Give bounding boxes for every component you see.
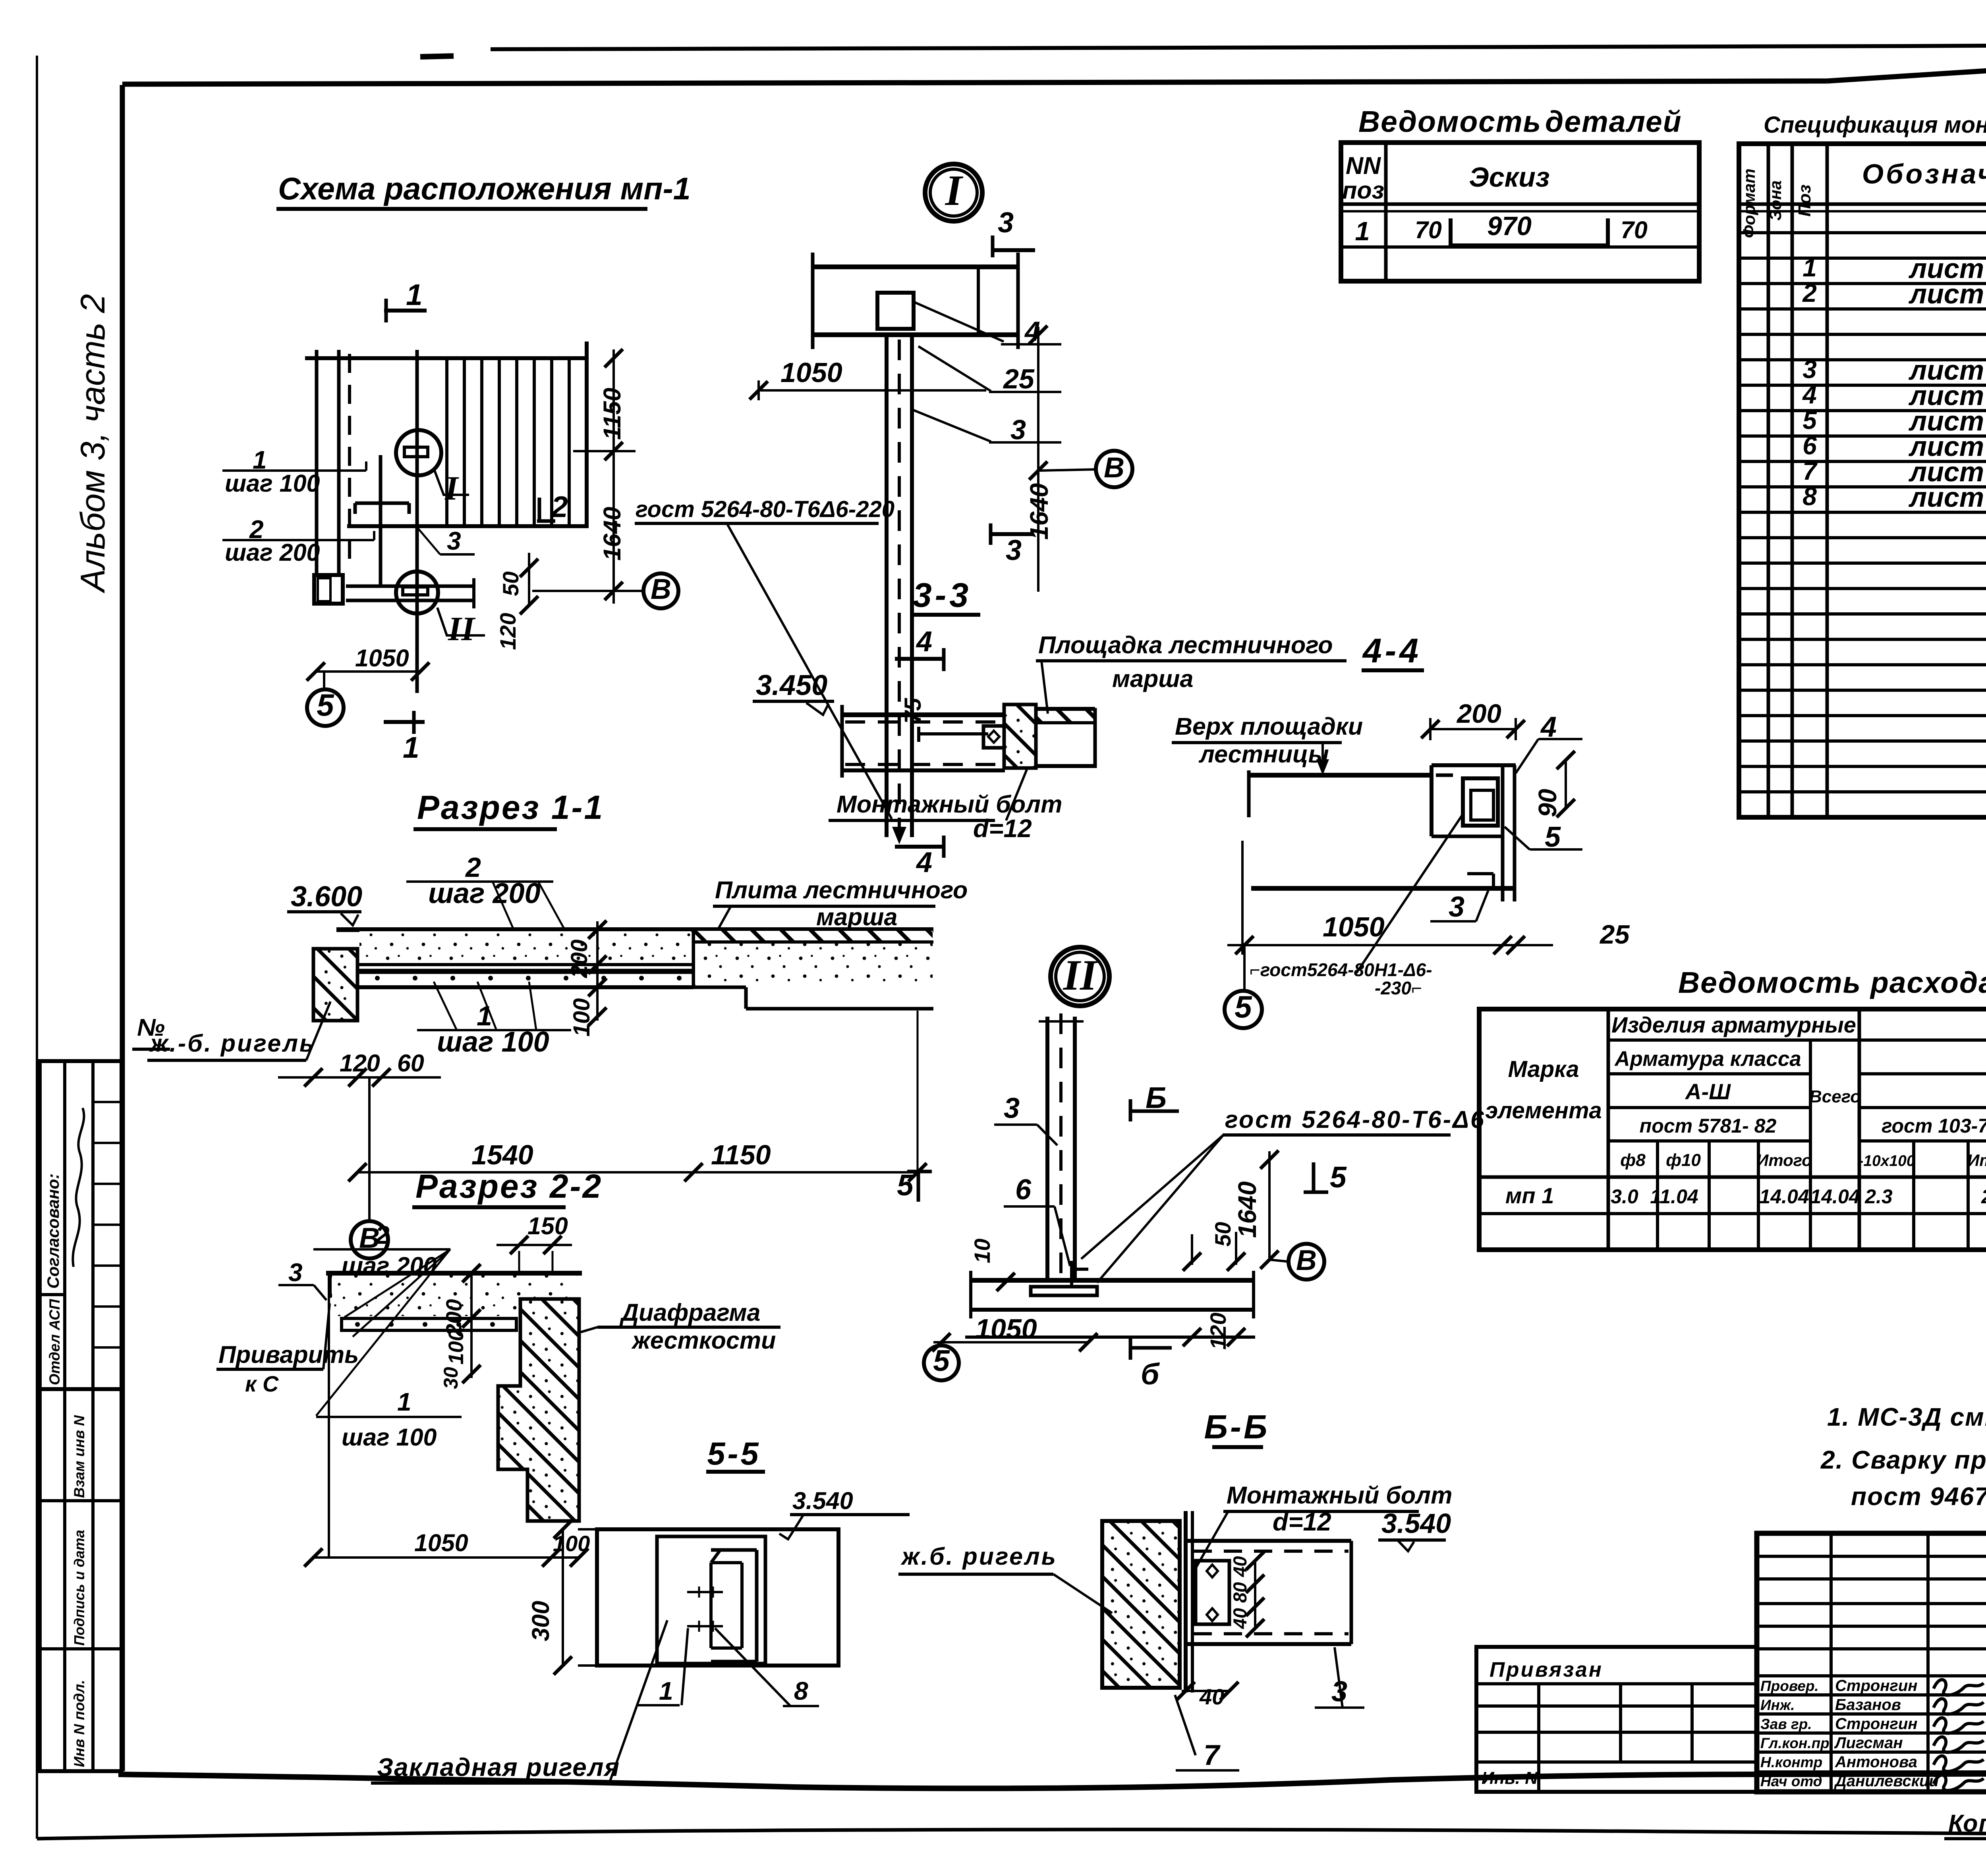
svg-text:пост 5781- 82: пост 5781- 82 xyxy=(1640,1115,1777,1137)
svg-text:2.3: 2.3 xyxy=(1864,1185,1893,1208)
svg-text:5: 5 xyxy=(933,1344,950,1377)
svg-text:70: 70 xyxy=(1621,216,1648,243)
svg-text:25: 25 xyxy=(1599,920,1630,950)
svg-text:жесткости: жесткости xyxy=(631,1327,776,1354)
svg-text:Данилевский: Данилевский xyxy=(1834,1772,1939,1790)
svg-text:Взам инв N: Взам инв N xyxy=(71,1415,87,1498)
svg-text:30: 30 xyxy=(440,1367,462,1389)
svg-text:3.540: 3.540 xyxy=(1381,1508,1451,1539)
svg-text:Приварить: Приварить xyxy=(218,1341,359,1368)
svg-text:Н.контр: Н.контр xyxy=(1760,1754,1822,1770)
svg-text:Эскиз: Эскиз xyxy=(1469,162,1549,193)
svg-text:4: 4 xyxy=(916,847,932,878)
svg-text:1640: 1640 xyxy=(1025,483,1053,540)
svg-text:1: 1 xyxy=(1802,253,1817,282)
svg-text:300: 300 xyxy=(527,1601,554,1641)
svg-text:3.450: 3.450 xyxy=(756,670,827,701)
svg-text:d=12: d=12 xyxy=(1273,1507,1331,1536)
svg-text:В: В xyxy=(1296,1245,1317,1276)
svg-text:50: 50 xyxy=(498,571,523,596)
svg-text:Формат: Формат xyxy=(1740,168,1758,238)
svg-text:лист 61: лист 61 xyxy=(1909,278,1986,309)
svg-text:NN: NN xyxy=(1346,152,1381,179)
svg-text:4: 4 xyxy=(1802,380,1817,409)
svg-text:1050: 1050 xyxy=(780,357,842,388)
svg-text:3: 3 xyxy=(1006,535,1022,566)
svg-text:Нач отд: Нач отд xyxy=(1760,1773,1822,1789)
svg-text:Площадка лестничного: Площадка лестничного xyxy=(1038,631,1333,658)
svg-text:ж.-б. ригель: ж.-б. ригель xyxy=(149,1030,315,1057)
svg-text:Антонова: Антонова xyxy=(1835,1753,1917,1771)
svg-text:1640: 1640 xyxy=(1233,1181,1262,1238)
svg-text:В: В xyxy=(1104,452,1124,484)
svg-text:8: 8 xyxy=(1802,482,1817,511)
svg-text:6: 6 xyxy=(1015,1174,1032,1206)
svg-text:5: 5 xyxy=(317,687,334,722)
svg-text:10: 10 xyxy=(970,1239,995,1263)
svg-text:Закладная ригеля: Закладная ригеля xyxy=(377,1753,620,1781)
svg-text:3.600: 3.600 xyxy=(291,881,362,913)
svg-text:шаг 100: шаг 100 xyxy=(437,1026,549,1058)
svg-text:150: 150 xyxy=(527,1212,568,1239)
svg-text:200: 200 xyxy=(1456,699,1501,729)
svg-text:мп 1: мп 1 xyxy=(1505,1183,1554,1208)
svg-text:шаг 200: шаг 200 xyxy=(428,878,541,909)
svg-text:3: 3 xyxy=(1802,355,1817,384)
svg-text:3: 3 xyxy=(447,527,461,555)
svg-text:Привязан: Привязан xyxy=(1489,1658,1603,1681)
svg-text:70: 70 xyxy=(1415,216,1442,243)
svg-text:4-4: 4-4 xyxy=(1362,632,1422,670)
svg-text:90: 90 xyxy=(1533,789,1562,817)
svg-text:В: В xyxy=(651,573,671,605)
svg-text:1050: 1050 xyxy=(355,645,409,672)
svg-text:Копировал Подлевская: Копировал Подлевская xyxy=(1948,1810,1986,1837)
svg-text:14.04: 14.04 xyxy=(1810,1185,1860,1208)
svg-text:гост 5264-80-Т6Δ6-220: гост 5264-80-Т6Δ6-220 xyxy=(636,496,894,522)
svg-text:Всего: Всего xyxy=(1809,1087,1861,1106)
svg-text:Инж.: Инж. xyxy=(1760,1697,1795,1713)
svg-text:марша: марша xyxy=(1112,665,1193,692)
svg-text:1050: 1050 xyxy=(414,1529,468,1556)
svg-text:1: 1 xyxy=(659,1677,673,1705)
svg-text:1. МС-3Д см. серию 1.020-1/83: 1. МС-3Д см. серию 1.020-1/83 Вып. 7-1 1… xyxy=(1827,1403,1986,1431)
svg-text:Альбом 3, часть 2: Альбом 3, часть 2 xyxy=(74,294,112,594)
svg-text:б: б xyxy=(1141,1357,1160,1391)
svg-text:лестницы: лестницы xyxy=(1198,741,1329,768)
svg-text:Схема расположения мп-1: Схема расположения мп-1 xyxy=(278,171,691,206)
svg-text:пост 9467-75.: пост 9467-75. xyxy=(1851,1482,1986,1511)
svg-text:Обозначение: Обозначение xyxy=(1862,158,1986,189)
svg-text:1150: 1150 xyxy=(599,388,626,440)
svg-text:50: 50 xyxy=(1210,1222,1235,1247)
svg-text:Ведомость расхода стали на оди: Ведомость расхода стали на один элемент,… xyxy=(1678,966,1986,999)
svg-text:2: 2 xyxy=(551,490,568,523)
svg-text:Инв. N: Инв. N xyxy=(1482,1768,1538,1788)
svg-text:1150: 1150 xyxy=(711,1139,771,1170)
svg-text:Подпись и дата: Подпись и дата xyxy=(71,1530,87,1646)
svg-text:Диафрагма: Диафрагма xyxy=(619,1299,760,1326)
svg-text:7: 7 xyxy=(1802,457,1818,485)
svg-text:Итого: Итого xyxy=(1756,1151,1812,1170)
svg-text:поз: поз xyxy=(1342,177,1384,204)
svg-text:Верх площадки: Верх площадки xyxy=(1175,713,1363,740)
svg-text:к С: к С xyxy=(245,1371,279,1396)
svg-text:ж.б. ригель: ж.б. ригель xyxy=(900,1543,1057,1570)
svg-text:40: 40 xyxy=(1199,1684,1224,1709)
svg-text:5: 5 xyxy=(1234,989,1252,1024)
svg-text:шаг 100: шаг 100 xyxy=(225,470,320,497)
svg-text:гост 5264-80-Т6-Δ6: гост 5264-80-Т6-Δ6 xyxy=(1225,1106,1486,1133)
svg-text:Плита лестничного: Плита лестничного xyxy=(715,876,968,903)
svg-text:3.540: 3.540 xyxy=(792,1487,853,1514)
svg-text:Согласовано:: Согласовано: xyxy=(44,1173,62,1289)
svg-text:Зав гр.: Зав гр. xyxy=(1760,1716,1812,1732)
svg-text:Ведомость: Ведомость xyxy=(1358,105,1542,138)
svg-text:гост 103-76: гост 103-76 xyxy=(1882,1115,1986,1137)
svg-text:1050: 1050 xyxy=(1323,911,1385,942)
svg-text:Провер.: Провер. xyxy=(1760,1678,1819,1694)
svg-text:100: 100 xyxy=(444,1330,468,1365)
svg-text:d=12: d=12 xyxy=(973,814,1032,843)
svg-text:⌐гост5264-80Н1-Δ6-: ⌐гост5264-80Н1-Δ6- xyxy=(1250,959,1432,980)
svg-text:I: I xyxy=(945,166,964,214)
svg-text:6: 6 xyxy=(1802,431,1817,460)
svg-text:1540: 1540 xyxy=(471,1139,533,1170)
svg-text:11.04: 11.04 xyxy=(1650,1185,1698,1208)
svg-text:-10х100: -10х100 xyxy=(1858,1152,1915,1170)
svg-text:1050: 1050 xyxy=(975,1313,1037,1344)
svg-text:II: II xyxy=(1063,951,1098,999)
svg-text:шаг 200: шаг 200 xyxy=(225,539,320,566)
svg-text:Спецификация монолитной ж.-б.: Спецификация монолитной ж.-б. лестничной… xyxy=(1764,112,1986,138)
svg-text:элемента: элемента xyxy=(1485,1098,1602,1123)
svg-text:Разрез 1-1: Разрез 1-1 xyxy=(417,789,604,826)
svg-text:3: 3 xyxy=(1004,1092,1020,1124)
svg-text:II: II xyxy=(448,610,475,648)
svg-text:100: 100 xyxy=(569,998,595,1037)
svg-text:Итого: Итого xyxy=(1967,1151,1986,1170)
svg-text:2.3: 2.3 xyxy=(1981,1185,1986,1208)
svg-text:ф10: ф10 xyxy=(1666,1150,1701,1170)
svg-text:ф8: ф8 xyxy=(1620,1150,1646,1170)
svg-text:Разрез 2-2: Разрез 2-2 xyxy=(415,1168,603,1205)
svg-text:1: 1 xyxy=(406,278,423,311)
svg-text:3-3: 3-3 xyxy=(913,576,972,614)
svg-text:Изделия арматурные: Изделия арматурные xyxy=(1611,1012,1856,1037)
svg-text:Лигсман: Лигсман xyxy=(1834,1734,1903,1752)
svg-text:лист 61: лист 61 xyxy=(1909,482,1986,513)
svg-text:Базанов: Базанов xyxy=(1835,1696,1901,1714)
svg-text:1: 1 xyxy=(397,1388,411,1416)
svg-text:шаг 100: шаг 100 xyxy=(342,1424,437,1451)
svg-text:деталей: деталей xyxy=(1545,105,1682,138)
svg-text:5-5: 5-5 xyxy=(707,1436,761,1472)
svg-text:Монтажный болт: Монтажный болт xyxy=(1227,1482,1452,1509)
svg-text:4: 4 xyxy=(916,626,932,658)
svg-text:2. Сварку производить элект: 2. Сварку производить электродами типа э… xyxy=(1820,1446,1986,1474)
svg-text:3: 3 xyxy=(1010,414,1026,445)
svg-text:Гл.кон.пр: Гл.кон.пр xyxy=(1760,1735,1830,1751)
svg-text:5: 5 xyxy=(1802,406,1817,434)
svg-text:1: 1 xyxy=(1355,216,1370,246)
svg-text:25: 25 xyxy=(1003,363,1035,394)
svg-text:3: 3 xyxy=(288,1258,303,1287)
svg-text:Зона: Зона xyxy=(1766,180,1785,220)
svg-text:Инв N подл.: Инв N подл. xyxy=(71,1680,87,1767)
svg-text:I: I xyxy=(444,469,459,507)
svg-text:2: 2 xyxy=(375,1221,390,1249)
svg-text:1640: 1640 xyxy=(599,507,626,561)
svg-text:Б-Б: Б-Б xyxy=(1204,1408,1270,1446)
svg-text:Б: Б xyxy=(1146,1081,1167,1114)
svg-text:75: 75 xyxy=(900,698,926,724)
svg-text:Арматура класса: Арматура класса xyxy=(1614,1047,1801,1071)
svg-text:7: 7 xyxy=(1204,1739,1221,1771)
svg-text:1: 1 xyxy=(403,731,419,764)
svg-text:120: 120 xyxy=(495,613,520,650)
svg-text:5: 5 xyxy=(1330,1160,1347,1194)
svg-text:А-Ш: А-Ш xyxy=(1685,1079,1731,1104)
svg-text:Отдел АСП: Отдел АСП xyxy=(46,1299,63,1385)
svg-text:3.0: 3.0 xyxy=(1611,1185,1638,1208)
svg-text:Стронгин: Стронгин xyxy=(1835,1677,1917,1695)
svg-text:2: 2 xyxy=(1802,279,1817,307)
svg-text:60: 60 xyxy=(397,1050,424,1077)
svg-text:3: 3 xyxy=(998,207,1014,239)
svg-text:Стронгин: Стронгин xyxy=(1835,1715,1917,1733)
svg-text:Поз: Поз xyxy=(1795,185,1814,217)
svg-text:970: 970 xyxy=(1487,211,1532,241)
svg-text:8: 8 xyxy=(794,1677,808,1705)
svg-text:14.04: 14.04 xyxy=(1759,1185,1809,1208)
svg-text:200: 200 xyxy=(566,940,592,979)
svg-text:Монтажный болт: Монтажный болт xyxy=(837,791,1062,818)
svg-text:-230⌐: -230⌐ xyxy=(1375,978,1422,998)
svg-text:Марка: Марка xyxy=(1508,1056,1579,1082)
svg-text:3: 3 xyxy=(1449,891,1464,923)
svg-text:40 80 40: 40 80 40 xyxy=(1229,1556,1250,1629)
